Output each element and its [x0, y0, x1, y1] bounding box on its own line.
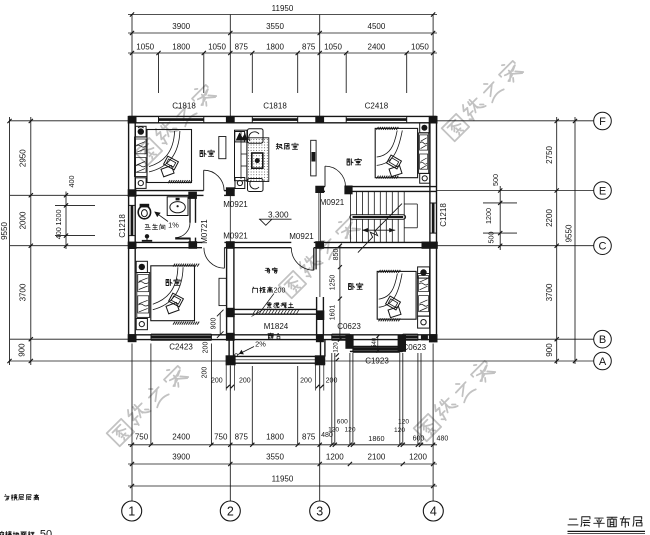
- window C2418 label: [365, 101, 389, 110]
- nightstand top of bottom-right bedroom (lamp): [418, 267, 430, 278]
- door M0921 study: [291, 248, 316, 271]
- svg-text:500: 500: [487, 232, 496, 244]
- svg-text:M0921: M0921: [223, 232, 248, 241]
- column terrace-SW: [226, 355, 236, 365]
- stair landing rail: [404, 204, 417, 228]
- terrace corner dims 200/200 left: [211, 365, 251, 391]
- wardrobe bottom-left bedroom: [219, 278, 226, 305]
- svg-text:C1218: C1218: [439, 203, 448, 227]
- svg-text:2: 2: [227, 505, 234, 519]
- staircase: [350, 191, 404, 242]
- plant living room corner: [235, 132, 247, 142]
- exterior wall top (axis F): [129, 116, 437, 122]
- threshold note height 200: [250, 287, 285, 310]
- column axis4-F: [429, 116, 438, 124]
- right dimension outer 9550: [564, 117, 577, 364]
- svg-text:120: 120: [328, 427, 339, 434]
- wash basin: [167, 197, 188, 216]
- svg-text:9550: 9550: [0, 222, 9, 240]
- window C0623 right label: [403, 343, 427, 352]
- bathroom right wall: [190, 195, 196, 242]
- bed bottom-left bedroom: [137, 264, 199, 325]
- grid bubble F: [594, 112, 612, 130]
- single sofa top living room: [248, 129, 264, 144]
- dim 120 below bay: [333, 342, 340, 361]
- bottom dimension row 3900/3550/1200/2100/1200: [128, 453, 437, 467]
- note bottom-left cut text: [0, 529, 52, 535]
- nightstand top of bottom-left bedroom (lamp): [136, 261, 147, 272]
- svg-text:50: 50: [40, 529, 52, 535]
- svg-text:600: 600: [413, 435, 425, 442]
- svg-text:200: 200: [239, 377, 251, 384]
- right dimension chain 2750/2200/3700/900: [545, 117, 559, 364]
- dim chain 850/1250/1601: [329, 244, 342, 342]
- column axis2-C: [226, 241, 235, 249]
- svg-text:1200: 1200: [54, 210, 63, 226]
- stair break line: [358, 204, 402, 253]
- bed top-left bedroom: [135, 130, 193, 184]
- column axis4-C: [422, 242, 438, 249]
- top dimension row 11950: [128, 4, 437, 17]
- svg-text:1200: 1200: [409, 453, 427, 462]
- svg-text:1050: 1050: [208, 42, 226, 51]
- svg-text:11950: 11950: [272, 475, 294, 484]
- dim 200 left of terrace (upper): [202, 342, 209, 354]
- svg-text:4: 4: [430, 505, 437, 519]
- window C1218 left: [129, 205, 135, 235]
- svg-text:2000: 2000: [18, 211, 27, 229]
- svg-text:3: 3: [316, 505, 323, 519]
- svg-text:200: 200: [202, 342, 209, 354]
- svg-text:2400: 2400: [368, 42, 386, 51]
- svg-text:875: 875: [302, 42, 316, 51]
- svg-text:3700: 3700: [545, 283, 554, 301]
- svg-text:A: A: [599, 356, 607, 368]
- svg-text:1860: 1860: [368, 434, 384, 443]
- svg-text:11950: 11950: [272, 4, 294, 13]
- dim 900 door offset: [210, 310, 223, 338]
- bottom dimension row 11950: [128, 475, 437, 489]
- svg-text:120: 120: [398, 419, 409, 426]
- terrace corner dims 200/200 right: [300, 365, 337, 391]
- svg-text:750: 750: [135, 433, 149, 442]
- svg-text:2750: 2750: [545, 146, 554, 164]
- axis bubble 2: [220, 501, 240, 521]
- concrete note: [252, 302, 294, 316]
- living room label: [276, 143, 298, 149]
- svg-text:4500: 4500: [368, 22, 386, 31]
- door label M0921 bottom-left: [223, 232, 248, 241]
- door label M0921 top-right: [320, 198, 345, 207]
- exterior wall left (axis 1): [129, 116, 136, 341]
- svg-text:M0921: M0921: [223, 200, 248, 209]
- svg-text:3.300: 3.300: [268, 211, 289, 220]
- axis bubble 3: [310, 501, 330, 521]
- column terrace-SE: [315, 355, 325, 365]
- svg-text:875: 875: [302, 433, 316, 442]
- grid bubble B: [594, 330, 612, 348]
- window C1923 label: [365, 357, 389, 366]
- bedroom label bottom-left: [166, 279, 180, 285]
- interior wall C (corridor bottom): [129, 242, 437, 247]
- svg-text:3900: 3900: [172, 22, 190, 31]
- watermark 3 (center): [277, 215, 361, 299]
- left dimension outer 9550: [0, 117, 12, 365]
- svg-text:120: 120: [394, 427, 405, 434]
- column axis3-E: [315, 186, 324, 193]
- svg-text:400: 400: [54, 227, 63, 239]
- column axis1-B: [128, 334, 137, 342]
- bed bottom-right bedroom: [377, 270, 429, 321]
- window C2418 top-right: [346, 116, 407, 122]
- nightstand bottom-left corner of top-left bedroom: [136, 178, 147, 189]
- axis bubble 1: [122, 501, 142, 521]
- window C1818 top-middle: [252, 116, 297, 122]
- svg-text:C2418: C2418: [365, 101, 389, 110]
- door M0921 top-right bedroom: [325, 166, 346, 187]
- svg-text:E: E: [599, 186, 606, 198]
- axis 3 line and shaft wall: [317, 248, 324, 335]
- terrace label: [268, 333, 280, 339]
- window C2423 bottom-left: [151, 334, 211, 340]
- column bay-right-B: [398, 335, 406, 351]
- door label M0721: [200, 219, 209, 244]
- svg-text:1050: 1050: [411, 42, 429, 51]
- nightstand top-right bedroom (lamp): [420, 123, 429, 133]
- grid bubble E: [594, 182, 612, 200]
- grid bubble C: [594, 237, 612, 255]
- svg-text:200: 200: [211, 377, 223, 384]
- svg-text:850: 850: [333, 249, 340, 261]
- window C1923 bay: [353, 346, 400, 352]
- column axis2-F: [226, 116, 235, 124]
- svg-text:875: 875: [235, 42, 249, 51]
- grid bubble A: [594, 352, 612, 370]
- svg-text:750: 750: [214, 433, 228, 442]
- column B-right-stub: [421, 335, 428, 341]
- svg-text:500: 500: [491, 174, 500, 186]
- exterior wall right (axis 4): [430, 116, 437, 341]
- svg-text:C: C: [599, 241, 607, 253]
- svg-text:200: 200: [274, 288, 286, 295]
- watermark 1 (top-left): [133, 82, 217, 166]
- column axis3-shaft: [316, 310, 324, 320]
- door M0921 top-left bedroom: [204, 170, 224, 190]
- column bay-left-B: [345, 335, 353, 348]
- watermark 5 (bottom-right): [412, 358, 496, 442]
- svg-text:M0921: M0921: [320, 198, 345, 207]
- svg-text:120: 120: [344, 427, 355, 434]
- svg-text:200: 200: [300, 377, 312, 384]
- coffee table living room: [252, 153, 263, 168]
- bathroom label: [145, 224, 165, 230]
- right sub-chain 500/1200/500: [483, 174, 517, 250]
- svg-text:C1818: C1818: [172, 101, 196, 110]
- window C1218 left label: [118, 214, 127, 238]
- stair handrail: [350, 215, 406, 219]
- column axis1-E: [128, 189, 137, 196]
- column axis2-study: [226, 308, 235, 317]
- watermark 4 (bottom-left): [105, 363, 189, 447]
- bedroom label top-left: [200, 150, 214, 156]
- left dimension chain 2950/2000/3700/900: [17, 117, 33, 365]
- interior wall E right (bedroom bottom): [316, 187, 437, 192]
- column axis1-C: [128, 242, 137, 249]
- svg-text:1200: 1200: [484, 208, 493, 224]
- interior wall E left (bathroom top): [129, 191, 235, 196]
- bed top-right bedroom: [375, 127, 429, 179]
- svg-text:1800: 1800: [172, 42, 190, 51]
- floor drain: [142, 234, 152, 241]
- door label M1824 terrace: [264, 322, 289, 331]
- svg-text:C0623: C0623: [337, 322, 361, 331]
- study bottom wall with threshold: [234, 309, 317, 314]
- column axis1-F: [128, 116, 137, 124]
- desk top-left bedroom: [219, 137, 226, 159]
- bottom extension lines: [132, 344, 433, 502]
- tv cabinet living room: [311, 140, 316, 176]
- svg-text:M1824: M1824: [264, 322, 289, 331]
- interior wall axis 2 (study left): [227, 248, 234, 335]
- window C1818 top-left: [159, 116, 204, 122]
- svg-text:1%: 1%: [168, 221, 179, 230]
- top dimension row 3900/3550/4500: [128, 22, 437, 35]
- door label M0921 top-left: [223, 200, 248, 209]
- svg-text:M0921: M0921: [289, 232, 314, 241]
- svg-text:540: 540: [372, 337, 378, 348]
- window C0623 left: [332, 334, 350, 340]
- svg-text:2200: 2200: [545, 209, 554, 227]
- window C1818 label 2: [263, 101, 287, 110]
- stair direction arrows: [362, 228, 395, 232]
- svg-text:9550: 9550: [564, 224, 573, 242]
- column axis3-C: [315, 241, 324, 249]
- door label M0921 study: [289, 232, 314, 241]
- svg-text:2950: 2950: [18, 149, 27, 167]
- window C0623 right: [403, 334, 418, 340]
- svg-text:200: 200: [202, 367, 209, 379]
- svg-text:C1923: C1923: [365, 357, 389, 366]
- svg-text:900: 900: [17, 343, 26, 357]
- nightstand top-left bedroom (lamp): [136, 126, 147, 137]
- toilet: [138, 204, 150, 219]
- svg-text:B: B: [599, 334, 606, 346]
- svg-text:1800: 1800: [266, 42, 284, 51]
- right axis lines to bubbles: [325, 121, 594, 361]
- svg-text:C2423: C2423: [169, 343, 193, 352]
- svg-text:1800: 1800: [266, 433, 284, 442]
- column axis4-B: [429, 334, 438, 342]
- nightstand bottom-right of top-right bedroom: [420, 173, 430, 183]
- window C2423 label: [169, 343, 193, 352]
- svg-text:C1218: C1218: [118, 214, 127, 238]
- dim 200 left of terrace (lower): [202, 367, 209, 379]
- svg-text:1601: 1601: [329, 305, 336, 321]
- level mark 3.300: [259, 211, 292, 226]
- terrace parapet right: [321, 340, 325, 357]
- left axis extension lines: [10, 121, 226, 361]
- slope 2% arrow terrace: [235, 340, 267, 357]
- terrace parapet left: [229, 340, 233, 357]
- svg-text:900: 900: [545, 343, 554, 357]
- svg-text:3900: 3900: [172, 453, 190, 462]
- top dimension row window offsets: [128, 42, 437, 55]
- column bathroom-C: [189, 241, 198, 249]
- svg-text:200: 200: [326, 377, 338, 384]
- svg-text:2400: 2400: [172, 433, 190, 442]
- column bathroom-E: [188, 192, 197, 199]
- bedroom label top-right: [347, 159, 361, 165]
- svg-text:400: 400: [67, 176, 76, 188]
- svg-text:F: F: [599, 116, 606, 128]
- svg-text:C0623: C0623: [403, 343, 427, 352]
- svg-text:2%: 2%: [255, 340, 266, 349]
- window C1218 right (stairs): [430, 203, 436, 233]
- bottom dimension row details: [128, 419, 448, 447]
- svg-text:2100: 2100: [368, 453, 386, 462]
- nightstand bottom of bottom-left bedroom: [136, 319, 147, 330]
- drawing title: [568, 516, 646, 533]
- left sub-chain 400/1200/400: [54, 176, 95, 250]
- hall side lines: [230, 191, 320, 242]
- nightstand bottom of bottom-right bedroom: [418, 316, 430, 328]
- svg-text:875: 875: [235, 433, 249, 442]
- column stair-E: [344, 186, 352, 195]
- svg-text:1250: 1250: [329, 275, 336, 291]
- door M0921 bottom-left bedroom: [204, 248, 225, 269]
- window C1818 label: [172, 101, 196, 110]
- rug living room: [247, 138, 269, 182]
- top extension lines: [132, 15, 433, 117]
- study label: [265, 268, 277, 274]
- window C0623 left label: [337, 322, 361, 331]
- axis bubble 4: [423, 501, 443, 521]
- bay window band below B: [350, 347, 403, 351]
- svg-text:3550: 3550: [266, 22, 284, 31]
- window C1218 right label: [439, 203, 448, 227]
- interior wall B (bottom): [129, 335, 437, 340]
- single sofa bottom living room: [248, 179, 264, 192]
- svg-text:M0721: M0721: [200, 219, 209, 244]
- slope 1% arrow: [154, 212, 179, 230]
- svg-text:1: 1: [128, 505, 135, 519]
- svg-text:120: 120: [333, 342, 340, 353]
- column axis3-F: [315, 116, 324, 124]
- dim 540 bay depth: [372, 335, 379, 352]
- svg-text:1050: 1050: [324, 42, 342, 51]
- svg-text:1200: 1200: [326, 453, 344, 462]
- sofa long living room: [235, 130, 247, 181]
- watermark 2 (top-right): [440, 58, 524, 142]
- door M0721 bathroom: [175, 223, 190, 239]
- svg-text:600: 600: [337, 419, 348, 426]
- column axis2-B: [226, 333, 235, 341]
- svg-text:3700: 3700: [18, 283, 27, 301]
- note bottom-left floor height: [4, 494, 38, 500]
- terrace parapet bottom (axis A): [226, 356, 325, 363]
- bedroom label bottom-right: [349, 283, 363, 289]
- svg-text:1050: 1050: [136, 42, 154, 51]
- svg-text:480: 480: [437, 435, 449, 442]
- column axis3-B: [316, 334, 324, 342]
- side table living room: [235, 178, 245, 189]
- svg-text:900: 900: [210, 318, 217, 330]
- column axis2-E: [226, 187, 235, 196]
- svg-text:C1818: C1818: [263, 101, 287, 110]
- svg-text:3550: 3550: [266, 453, 284, 462]
